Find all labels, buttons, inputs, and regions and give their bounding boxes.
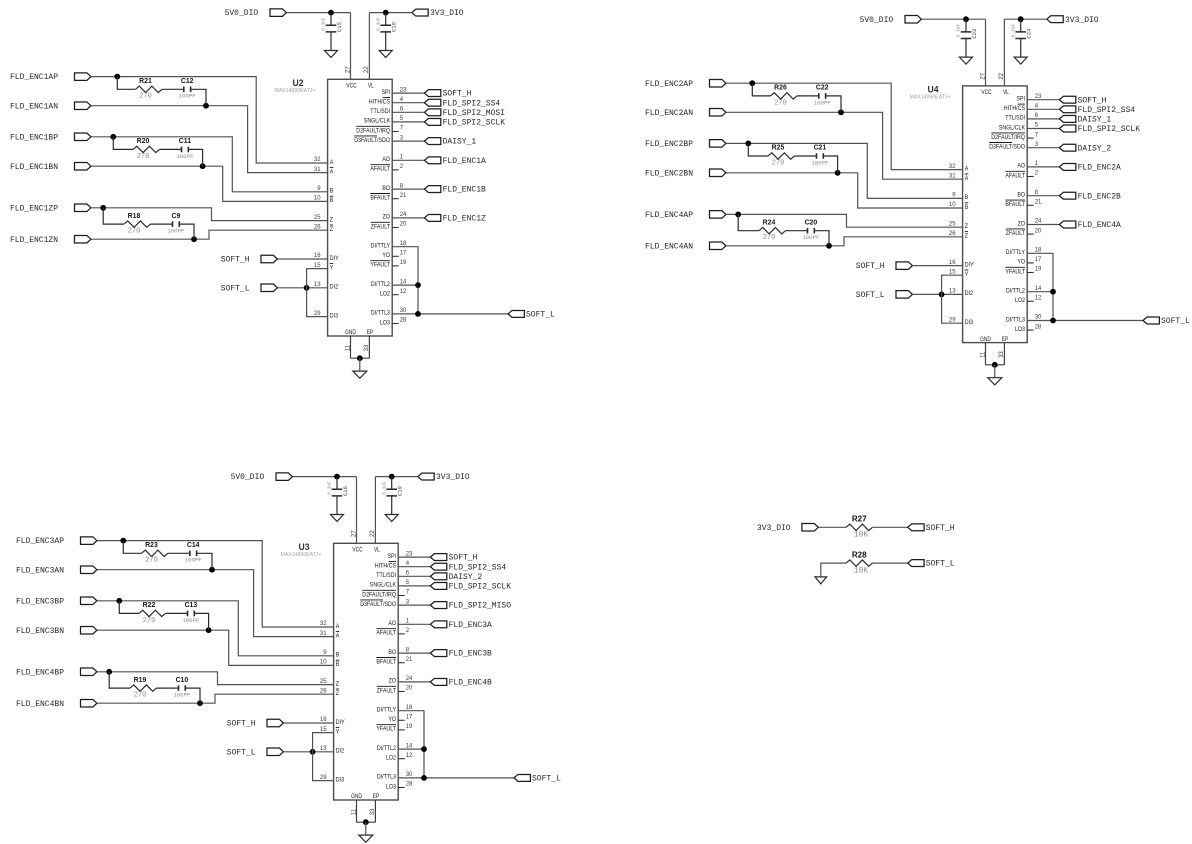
pin 9 (B) [317,186,333,195]
wire FLD_ENC2BP to pin [726,143,963,198]
pin 30 (DI/TTL3) [377,772,413,781]
svg-text:SOFT_H: SOFT_H [449,554,478,563]
pin 15 (Y) [320,727,340,736]
node FLD_ENC3AN [16,566,97,575]
svg-text:DIY: DIY [330,255,339,262]
pin 21 (BFAULT) [1005,200,1042,209]
svg-text:R21: R21 [139,78,152,85]
pin 24 (ZO) [383,212,407,221]
node FLD_ENC1A [424,157,486,166]
svg-text:0.1UF: 0.1UF [327,481,333,495]
svg-text:R19: R19 [134,677,147,684]
svg-text:10: 10 [949,202,956,208]
svg-text:270: 270 [137,153,150,161]
node FLD_ENC1AN [10,102,91,111]
svg-text:FLD_ENC4BN: FLD_ENC4BN [16,700,64,709]
svg-text:FLD_ENC4BP: FLD_ENC4BP [16,668,64,677]
pin 25 (Z) [314,215,333,224]
svg-text:C12: C12 [181,78,194,85]
node FLD_SPI2_SCLK [430,582,511,591]
svg-text:26: 26 [314,224,321,230]
pin 5 (SNGL/CLK) [370,580,410,589]
wire VL drop pin 22 [368,13,370,80]
resistor R28 10K [846,550,872,575]
wire to DAISY_1 [1027,118,1059,120]
pin 20 (ZFAULT) [371,222,407,231]
node SOFT_H [1059,96,1106,105]
node FLD_ENC1BN [10,162,91,171]
svg-text:0.1UF: 0.1UF [381,481,387,495]
svg-text:FLD_ENC2AN: FLD_ENC2AN [645,109,693,118]
svg-text:FLD_ENC3AP: FLD_ENC3AP [16,537,64,546]
svg-text:28: 28 [1035,324,1042,330]
svg-text:270: 270 [128,228,141,236]
node DAISY_2 [1059,144,1111,153]
svg-text:A: A [330,159,334,166]
svg-text:ZO: ZO [389,678,396,685]
pin 10 (B) [320,660,339,669]
svg-text:SOFT_H: SOFT_H [926,524,955,533]
svg-text:A: A [965,175,969,182]
junction [200,163,206,169]
wire SOFT_H to pin 16 [913,265,963,267]
node SOFT_H [856,262,913,271]
svg-text:A: A [336,623,340,630]
svg-text:VCC: VCC [352,546,363,553]
svg-text:FLD_ENC1A: FLD_ENC1A [443,157,486,166]
svg-text:VL: VL [368,82,374,89]
svg-text:16: 16 [949,260,956,266]
wire 5V0_DIO rail [287,12,351,14]
svg-text:SOFT_L: SOFT_L [856,291,885,300]
wire to FLD_ENC2A [1027,166,1059,168]
svg-text:C19: C19 [397,486,404,496]
wire C to N rail [826,96,841,112]
capacitor C21 100PF [811,145,829,167]
capacitor C24 0.1UF [1010,19,1032,57]
resistor R18 270 [124,213,151,236]
svg-text:SOFT_H: SOFT_H [1078,96,1107,105]
wire FLD_ENC1ZN to pin [91,230,328,239]
wire to FLD_SPI2_SCLK [398,585,430,587]
node FLD_SPI2_SS4 [424,99,500,108]
svg-text:20: 20 [406,686,413,692]
svg-text:FLD_SPI2_SCLK: FLD_SPI2_SCLK [1078,125,1141,134]
capacitor C14 100PF [185,542,203,564]
svg-text:14: 14 [406,743,413,749]
wire DI/TTL2 to bus [1027,291,1053,293]
junction [191,236,197,242]
node FLD_ENC2BN [645,169,726,178]
svg-text:27: 27 [980,72,986,79]
junction [415,282,421,288]
wire to FLD_SPI2_SCLK [392,121,424,123]
svg-text:FLD_ENC4AN: FLD_ENC4AN [645,242,693,251]
svg-text:SOFT_L: SOFT_L [1161,317,1190,326]
svg-text:ZFAULT: ZFAULT [371,223,390,230]
wire FLD_ENC1BP to pin [91,137,328,192]
svg-text:HITH/CS: HITH/CS [1004,105,1026,112]
node FLD_ENC3A [430,621,492,630]
junction [1050,289,1056,295]
capacitor C16 0.1UF [327,477,349,515]
wire GND pin 11 [350,336,352,358]
pin 25 (Z) [949,221,968,230]
wire gnd join [357,821,376,823]
svg-text:ZFAULT: ZFAULT [377,687,396,694]
junction [992,362,998,368]
junction [197,700,203,706]
svg-text:R20: R20 [137,138,150,145]
pin 2 (AFAULT) [1005,171,1038,180]
pin 17 (YO) [1017,257,1042,266]
svg-text:AFAULT: AFAULT [376,630,396,637]
wire to FLD_ENC2B [1027,195,1059,197]
wire VL drop pin 22 [1003,19,1005,86]
wire FLD_ENC2BN to pin [726,173,963,208]
wire SOFT_L bus left [313,733,334,781]
pin 32 (A) [320,621,340,630]
pin 28 (LO3) [380,318,407,327]
svg-text:B: B [330,197,334,204]
wire R to C [168,552,190,554]
svg-text:20: 20 [400,222,407,228]
pin 4 (HITH/CS) [369,97,404,106]
svg-text:D3FAULT/SDO: D3FAULT/SDO [360,601,396,608]
wire R to C [795,155,817,157]
wire R to C [151,223,173,225]
pin 26 (Z) [949,231,968,240]
svg-text:12: 12 [400,289,407,295]
wire SOFT_L to pin 13 [284,751,334,753]
junction [120,538,126,544]
svg-text:LO3: LO3 [1015,326,1025,333]
svg-text:7: 7 [406,590,410,596]
svg-text:21: 21 [400,193,407,199]
svg-text:13: 13 [314,282,321,288]
wire FLD_ENC2AP to pin [726,83,963,169]
wire R to C [786,230,808,232]
junction [116,598,122,604]
pin 15 (Y) [949,269,969,278]
capacitor C19 0.1UF [381,477,403,515]
node SOFT_L [908,560,955,569]
svg-text:DAISY_2: DAISY_2 [1078,144,1112,153]
ground [815,577,827,584]
svg-text:21: 21 [1035,200,1042,206]
svg-text:GND: GND [351,793,362,800]
pin 2 (AFAULT) [370,164,403,173]
svg-text:20: 20 [1035,228,1042,234]
node FLD_SPI2_MISO [430,602,511,611]
svg-text:DI2: DI2 [330,284,339,291]
svg-text:BO: BO [382,185,390,192]
svg-text:FLD_ENC4A: FLD_ENC4A [1078,221,1121,230]
svg-text:Z: Z [330,226,333,233]
svg-text:3: 3 [406,599,410,605]
svg-text:R27: R27 [852,515,867,524]
resistor R25 270 [768,145,794,168]
svg-text:R24: R24 [763,219,776,226]
node FLD_SPI2_SCLK [424,118,505,127]
ground [379,51,392,58]
ground [331,515,344,522]
node 5V0_DIO [225,9,287,18]
wire DI/TTLY to bus [392,247,418,314]
svg-text:26: 26 [949,231,956,237]
svg-text:R23: R23 [145,542,158,549]
pin 14 (DI/TTL2) [377,743,413,752]
ground [1014,57,1027,64]
pin 24 (ZO) [1018,219,1042,228]
svg-text:270: 270 [145,557,158,565]
svg-text:SOFT_H: SOFT_H [227,720,256,729]
wire SOFT_H to pin 16 [278,258,328,260]
svg-text:Z: Z [336,680,339,687]
node FLD_ENC2A [1059,163,1121,172]
svg-text:18: 18 [406,705,413,711]
svg-text:EP: EP [367,329,373,336]
svg-text:100PF: 100PF [185,557,203,564]
svg-text:28: 28 [406,782,413,788]
pin 18 (DI/TTLY) [377,705,413,714]
svg-text:32: 32 [949,164,956,170]
pin 12 (LO2) [380,289,407,298]
svg-text:10: 10 [314,196,321,202]
wire C to N rail [823,156,837,173]
svg-text:EP: EP [373,793,379,800]
pin 20 (ZFAULT) [377,686,413,695]
wire to FLD_ENC1B [392,188,424,190]
wire DI/TTL2 to bus [392,284,418,286]
op-amp U4 MAX14890EATJ+ IC body [910,72,1028,358]
wire GND pin 11 [356,800,358,822]
wire FLD_ENC2AN to pin [726,112,963,179]
pin 26 (Z) [320,688,339,697]
svg-text:DI2: DI2 [965,290,974,297]
svg-text:MAX14890EATJ+: MAX14890EATJ+ [275,88,316,94]
pin 3 (D3FAULT/SDO) [360,599,410,608]
wire RC link [123,541,141,554]
wire to SOFT_H [392,92,424,94]
pin 12 (LO2) [386,753,413,762]
svg-text:3: 3 [1035,142,1039,148]
svg-text:YFAULT: YFAULT [1005,268,1025,275]
svg-text:2: 2 [1035,171,1039,177]
junction [114,74,120,80]
svg-text:DI/TTL3: DI/TTL3 [1006,316,1025,323]
junction [334,474,340,480]
junction [835,170,841,176]
svg-text:23: 23 [400,87,407,93]
junction [100,205,106,211]
svg-text:FLD_ENC1BP: FLD_ENC1BP [10,133,58,142]
wire EP pin 33 [374,800,376,822]
svg-text:19: 19 [1035,267,1042,273]
svg-text:6: 6 [406,571,410,577]
svg-text:18: 18 [1035,248,1042,254]
node 3V3_DIO [418,473,470,482]
wire RC link [103,208,124,224]
svg-text:AFAULT: AFAULT [370,166,390,173]
capacitor C9 100PF [167,213,185,235]
svg-text:DI/TTL3: DI/TTL3 [371,310,390,317]
junction [745,141,751,147]
wire to DAISY_2 [398,575,430,577]
svg-text:C21: C21 [814,145,827,152]
wire FLD_ENC4AP to pin [726,214,963,227]
svg-text:A: A [965,165,969,172]
svg-text:SOFT_H: SOFT_H [856,262,885,271]
wire VCC drop pin 27 [350,13,352,80]
svg-text:SOFT_H: SOFT_H [221,256,250,265]
wire to DAISY_2 [1027,147,1059,149]
svg-text:14: 14 [1035,286,1042,292]
svg-text:17: 17 [1035,257,1042,263]
node FLD_SPI2_SS4 [1059,106,1135,115]
pin 5 (SNGL/CLK) [999,123,1039,132]
node FLD_ENC2AN [645,109,726,118]
pin 23 (SPI) [387,551,413,560]
wire to FLD_ENC4B [398,681,430,683]
svg-text:FLD_ENC1B: FLD_ENC1B [443,186,486,195]
wire C to N rail [197,553,212,569]
wire RC link [752,83,770,96]
svg-text:0.1UF: 0.1UF [375,17,381,31]
svg-text:22: 22 [999,72,1005,79]
svg-text:DI/TTL3: DI/TTL3 [377,774,396,781]
svg-text:AFAULT: AFAULT [1005,172,1025,179]
svg-text:YO: YO [388,716,396,723]
pin 9 (B) [952,193,968,202]
svg-text:D3FAULT/SDO: D3FAULT/SDO [989,144,1025,151]
wire to FLD_SPI2_MOSI [392,111,424,113]
wire SOFT_H to pin 16 [284,722,334,724]
wire VCC drop pin 27 [985,19,987,86]
pin 1 (AO) [388,619,409,628]
pin 20 (ZFAULT) [1006,228,1042,237]
svg-text:FLD_ENC3B: FLD_ENC3B [449,650,492,659]
svg-text:30: 30 [406,772,413,778]
svg-text:23: 23 [406,551,413,557]
junction [310,749,316,755]
svg-text:FLD_ENC2B: FLD_ENC2B [1078,192,1121,201]
svg-text:24: 24 [406,676,413,682]
junction [1050,318,1056,324]
node FLD_ENC3B [430,650,492,659]
svg-text:TTL/SDI: TTL/SDI [376,572,396,579]
pin 15 (Y) [314,263,334,272]
svg-text:21: 21 [406,657,413,663]
pin 6 (TTL/SDI) [370,107,403,116]
svg-text:2: 2 [400,164,404,170]
svg-text:10: 10 [320,660,327,666]
svg-text:22: 22 [364,66,370,73]
pin 9 (B) [323,650,339,659]
svg-text:YFAULT: YFAULT [370,262,390,269]
svg-text:32: 32 [320,621,327,627]
node SOFT_L [508,310,555,319]
svg-text:3: 3 [400,135,404,141]
svg-text:B: B [336,661,340,668]
pin 13 (DI2) [949,289,973,298]
svg-text:4: 4 [400,97,404,103]
ground [385,515,398,522]
svg-text:FLD_ENC3BP: FLD_ENC3BP [16,597,64,606]
junction [328,10,334,16]
svg-text:FLD_ENC3BN: FLD_ENC3BN [16,627,64,636]
pin 14 (DI/TTL2) [371,279,407,288]
svg-text:270: 270 [139,93,152,101]
svg-text:13: 13 [320,746,327,752]
node 3V3_DIO [412,9,464,18]
pin 16 (DIY) [314,253,339,262]
junction [939,292,945,298]
node 3V3_DIO [757,524,818,533]
svg-text:Y: Y [330,264,334,271]
svg-text:SOFT_H: SOFT_H [443,90,472,99]
svg-text:SOFT_L: SOFT_L [227,748,256,757]
svg-text:270: 270 [763,234,776,242]
svg-text:DI2: DI2 [336,748,345,755]
svg-text:100PF: 100PF [811,159,829,166]
svg-text:25: 25 [314,215,321,221]
wire C to N rail [188,149,202,166]
svg-text:25: 25 [949,221,956,227]
svg-text:7: 7 [400,126,404,132]
svg-text:Z: Z [330,216,333,223]
svg-text:10K: 10K [854,566,869,575]
svg-text:FLD_ENC1AN: FLD_ENC1AN [10,102,58,111]
svg-text:FLD_ENC1ZP: FLD_ENC1ZP [10,204,58,213]
svg-text:14: 14 [400,279,407,285]
wire gnd join [351,357,370,359]
svg-text:22: 22 [370,530,376,537]
resistor R24 270 [759,219,785,242]
capacitor C22 100PF [814,85,832,107]
capacitor C20 100PF [802,219,820,241]
svg-text:SPI: SPI [387,553,396,560]
svg-text:18: 18 [400,241,407,247]
wire FLD_ENC3AP to pin [97,541,334,627]
wire R to C [157,687,179,689]
pin 19 (YFAULT) [376,724,413,733]
wire C to N rail [194,613,208,630]
node FLD_ENC1B [424,186,486,195]
svg-text:8: 8 [400,183,404,189]
wire pin 30 to SOFT_L [1027,320,1143,322]
node SOFT_L [227,748,284,757]
capacitor C15 0.1UF [321,13,343,51]
svg-text:C10: C10 [176,677,189,684]
node FLD_SPI2_MOSI [424,109,505,118]
pin 24 (ZO) [389,676,413,685]
pin 12 (LO2) [1015,296,1042,305]
svg-text:VL: VL [374,546,380,553]
pin 6 (TTL/SDI) [376,571,409,580]
node FLD_ENC2BP [645,140,726,149]
svg-text:VL: VL [1003,89,1009,96]
wire to ground [365,822,367,835]
junction [415,311,421,317]
pin 18 (DI/TTLY) [371,241,407,250]
wire 3V3_DIO rail [375,476,418,478]
svg-text:D2FAULT/IRQ: D2FAULT/IRQ [362,591,396,598]
svg-text:3V3_DIO: 3V3_DIO [757,524,791,533]
svg-text:BO: BO [1017,192,1025,199]
svg-text:EP: EP [1002,336,1008,343]
wire DI/TTLY to bus [1027,253,1053,320]
